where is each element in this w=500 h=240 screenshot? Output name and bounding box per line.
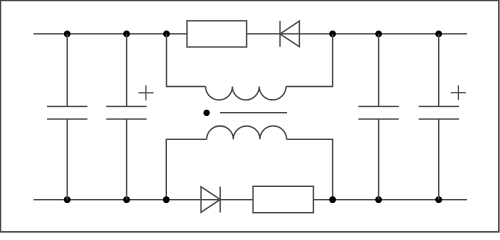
node dot top F — [435, 31, 442, 38]
resistor R1 — [187, 21, 247, 47]
diode D1 — [280, 21, 299, 47]
node dot bottom C — [163, 196, 170, 203]
wire top rail left segment — [34, 33, 188, 35]
inductor L2 loop wires — [166, 139, 332, 199]
node dot top A — [64, 31, 71, 38]
wire bottom rail left segment — [34, 199, 254, 201]
core line — [220, 112, 287, 114]
wire bottom rail right segment — [313, 199, 467, 201]
node dot bottom A — [64, 196, 71, 203]
node dot bottom D — [329, 196, 336, 203]
node dot bottom E — [375, 196, 382, 203]
node dot top B — [123, 31, 130, 38]
resistor R2 — [253, 186, 313, 212]
node dot top D — [329, 31, 336, 38]
inductor L1 winding — [206, 87, 286, 100]
inductor L1 loop wires — [167, 34, 333, 87]
plus sign C4 — [451, 85, 466, 100]
capacitor C1 — [47, 34, 87, 200]
inductor L2 winding — [207, 126, 287, 139]
capacitor C4 (polarized) — [419, 34, 459, 200]
capacitor C2 (polarized) — [106, 34, 146, 200]
node dot top C — [163, 31, 170, 38]
node dot bottom B — [123, 196, 130, 203]
diode D2 — [201, 187, 220, 213]
node dot bottom F — [435, 196, 442, 203]
node dot top E — [375, 31, 382, 38]
plus sign C2 — [138, 85, 153, 100]
phasing dot — [203, 110, 209, 116]
capacitor C3 — [358, 34, 398, 200]
wire top rail right segment — [247, 33, 467, 35]
